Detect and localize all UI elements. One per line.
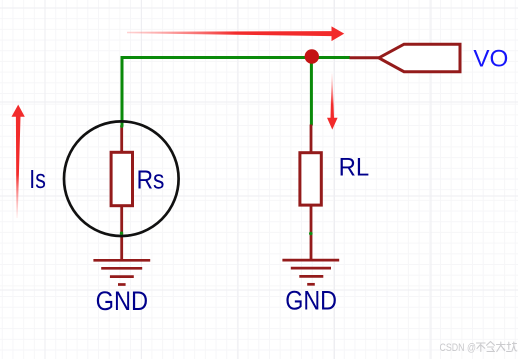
junction dot node	[305, 49, 319, 63]
annotation arrow: Is upward arrow	[12, 105, 25, 218]
svg-text:GND: GND	[96, 286, 149, 316]
wire: green vertical drop from junction toward RL	[310, 58, 313, 126]
wire: maroon pin above Rs	[120, 125, 123, 152]
pin dot at circle bottom	[120, 232, 123, 235]
pin dot below RL	[309, 232, 313, 236]
svg-text:Is: Is	[29, 166, 46, 194]
VO output port symbol	[379, 44, 460, 71]
wire: maroon pin above RL	[310, 125, 313, 154]
annotation arrow: RL downward current arrow	[327, 74, 338, 130]
watermark CJK glyphs	[477, 342, 517, 352]
svg-text:RL: RL	[339, 153, 370, 181]
wire: green vertical drop on left into current source	[121, 56, 124, 126]
wire: maroon pin below RL down to right ground	[310, 206, 313, 261]
svg-text:Rs: Rs	[137, 167, 165, 195]
wire: maroon stub from net to VO port tip	[350, 56, 380, 59]
resistor Rs body	[111, 152, 132, 205]
wire: green horizontal net from left corner to VO stub	[121, 56, 351, 59]
svg-text:CSDN @: CSDN @	[440, 342, 477, 354]
resistor RL body	[300, 153, 321, 205]
ground symbol right	[282, 260, 339, 284]
pin dot at circle top	[120, 125, 123, 128]
annotation arrow: top current flow arrow	[127, 26, 344, 41]
ground symbol left	[93, 260, 150, 284]
current source circle	[64, 121, 179, 236]
wire: maroon pin below Rs down to left ground	[120, 206, 123, 260]
svg-text:GND: GND	[285, 286, 337, 316]
svg-text:VO: VO	[473, 45, 508, 72]
